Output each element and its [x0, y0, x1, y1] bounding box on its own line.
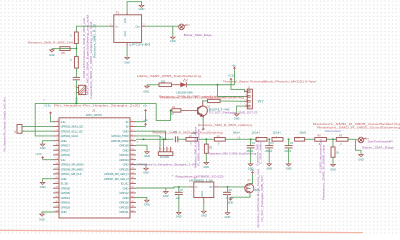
wire L1 to junction R7 — [198, 138, 215, 140]
svg-text:GPIO13: GPIO13 — [61, 196, 71, 200]
ground GND under C3 — [248, 163, 253, 166]
connector J3 RPI GPIO box — [59, 118, 130, 218]
wire pin34 gnd — [136, 197, 147, 199]
svg-text:110nH: 110nH — [252, 130, 260, 134]
wire LED to +5v — [186, 84, 234, 86]
inductor L2 — [214, 138, 225, 142]
svg-text:Resistors_SMD_R_0805_nice: Resistors_SMD_R_0805_nice — [322, 144, 326, 200]
connector J1 2-pin header — [17, 125, 22, 134]
svg-text:GPIO14_TXD0: GPIO14_TXD0 — [111, 134, 129, 138]
svg-text:RPI_GPIO: RPI_GPIO — [86, 113, 103, 117]
svg-text:Out: Out — [135, 24, 139, 28]
wire filter top pin to ground — [127, 2, 141, 12]
svg-text:Pin_Headers-Pin_Header_Straigh: Pin_Headers-Pin_Header_Straight_1x02_(4x… — [3, 97, 7, 151]
svg-text:+5v: +5v — [143, 104, 148, 108]
led D1 — [172, 84, 181, 86]
svg-text:GND: GND — [143, 90, 149, 94]
capacitor C3 shunt — [250, 139, 252, 145]
svg-text:GND: GND — [76, 97, 79, 103]
ground GND under C7 — [177, 212, 182, 215]
svg-text:TO_SOT_Packages_SMD_SOT-23: TO_SOT_Packages_SMD_SOT-23 — [209, 111, 259, 115]
svg-text:C_0805_solder: C_0805_solder — [259, 142, 263, 164]
ground GND Q2 arrow — [229, 197, 231, 200]
svg-text:GPIO12: GPIO12 — [119, 191, 129, 195]
svg-text:GND: GND — [358, 158, 364, 162]
wire Z-bend to base resistor — [156, 103, 172, 120]
resistor R5 base resistor — [172, 109, 181, 112]
svg-text:GND: GND — [144, 203, 150, 207]
svg-text:GPIO17: GPIO17 — [61, 144, 71, 148]
svg-text:GND: GND — [139, 7, 145, 11]
node junction filter net — [75, 48, 77, 50]
ground GND below SMA — [172, 26, 174, 36]
svg-text:GND: GND — [330, 167, 336, 171]
svg-text:+3.3v: +3.3v — [44, 104, 52, 108]
inductor L1 — [186, 138, 198, 142]
svg-text:GND: GND — [234, 116, 240, 120]
wire collector net to PTT pin3 — [220, 100, 244, 102]
ground GND regulator — [203, 202, 205, 210]
resistor R10 shunt to gnd — [332, 139, 334, 147]
svg-text:R_0805_solder_mode: R_0805_solder_mode — [197, 128, 201, 166]
node junction cap C3 — [250, 138, 252, 140]
node junction on GPIO4 net — [75, 102, 77, 104]
ground GND stub on regulator net — [165, 188, 167, 190]
inductor L3 — [256, 138, 267, 142]
svg-text:220pF: 220pF — [284, 150, 292, 153]
svg-text:GND: GND — [144, 154, 150, 158]
svg-text:.068uF: .068uF — [265, 150, 273, 153]
svg-text:Resistors_SMD_R_08: Resistors_SMD_R_08 — [92, 23, 96, 58]
svg-text:GPIO07_SPI_CE1_N: GPIO07_SPI_CE1_N — [104, 177, 128, 181]
node junction shunt R7 — [205, 138, 207, 140]
svg-text:GPIO09_SPI_MISO: GPIO09_SPI_MISO — [61, 167, 85, 171]
svg-text:GPIO24: GPIO24 — [119, 158, 129, 162]
ground GND under C4 — [267, 163, 272, 166]
ground GND left of R2 — [52, 48, 60, 50]
node junction cap C4 — [268, 138, 270, 140]
node junction attenuator — [327, 138, 337, 140]
filter U-F1 box — [114, 15, 142, 43]
wire attenuator to SMA2 — [348, 138, 358, 141]
svg-text:+3.3v: +3.3v — [228, 73, 235, 77]
regulator U1 box — [194, 182, 214, 198]
svg-text:GPIO26: GPIO26 — [61, 205, 71, 209]
svg-text:GND: GND — [123, 163, 129, 167]
wire pin32 to regulator — [136, 187, 189, 188]
resistor R3 vertical — [75, 57, 79, 69]
node junction LED net — [217, 84, 219, 86]
wire junction to R2 shunt — [60, 48, 76, 50]
svg-text:GPIO27: GPIO27 — [61, 148, 71, 152]
node junction C8 — [227, 186, 229, 188]
svg-text:GPIO18: GPIO18 — [119, 144, 129, 148]
ground GND pin25 — [43, 179, 53, 182]
svg-text:F1: F1 — [116, 10, 120, 14]
resistor R8 attenuator — [315, 138, 327, 142]
svg-text:.056uF: .056uF — [246, 150, 254, 153]
svg-text:GPIO08_SPI_CE0_N: GPIO08_SPI_CE0_N — [104, 172, 128, 176]
svg-text:GPIO10_SPI_MOSI: GPIO10_SPI_MOSI — [61, 163, 84, 167]
wire R1 to junction — [75, 44, 77, 57]
ground GND pin9 — [43, 141, 53, 143]
svg-text:GND: GND — [170, 39, 176, 43]
svg-text:GPIO23: GPIO23 — [119, 153, 129, 157]
svg-text:1Xu100: 1Xu100 — [160, 155, 170, 159]
svg-text:Capacitors_SMD_C_0805_solderin: Capacitors_SMD_C_0805_soldering_ext_mod — [89, 21, 93, 99]
svg-text:GPIO05: GPIO05 — [61, 186, 71, 190]
ground GND pin20 right — [144, 167, 149, 170]
svg-text:256: 256 — [61, 52, 66, 55]
wire C1 down to jumper JP1 — [75, 80, 77, 104]
sheet border line — [0, 230, 363, 232]
wire pin8 chain — [136, 138, 174, 140]
svg-text:GND: GND — [201, 213, 207, 217]
svg-text:GPIO04_GCLK: GPIO04_GCLK — [61, 134, 79, 138]
svg-text:GPIO02_SDA1_I2C: GPIO02_SDA1_I2C — [61, 125, 84, 129]
svg-text:VO: VO — [209, 186, 213, 189]
svg-text:GND: GND — [123, 186, 129, 190]
ground arrow emitter — [202, 118, 204, 127]
wire GPIO4 net to filter input — [76, 26, 110, 31]
ground GND under R7 — [204, 162, 209, 165]
resistor R6 collector — [202, 99, 204, 102]
svg-text:50nH: 50nH — [300, 130, 307, 134]
svg-text:GPIO16: GPIO16 — [119, 201, 129, 205]
wire pin20 gnd — [136, 164, 146, 167]
wire pin12 bend to header — [136, 145, 147, 150]
svg-text:GND: GND — [40, 146, 46, 150]
resistor R4 for LED — [159, 83, 172, 87]
svg-text:GPIO20: GPIO20 — [119, 205, 129, 209]
connector P1 SMA edge antenna — [179, 24, 187, 30]
svg-text:250: 250 — [161, 81, 166, 84]
inductor L4 — [272, 138, 283, 142]
resistor R1 vertical — [75, 32, 79, 44]
capacitor C2 series — [175, 136, 177, 142]
wire junction to PTT pin2 — [218, 85, 245, 97]
svg-text:GPIO25: GPIO25 — [119, 167, 129, 171]
svg-text:GPIO03_SCL1_I2C: GPIO03_SCL1_I2C — [61, 129, 83, 133]
svg-text:GPIO22: GPIO22 — [61, 153, 71, 157]
svg-text:VI: VI — [195, 186, 198, 189]
ground GND near TSU header — [145, 151, 150, 154]
wire +5v to Q2 drain — [250, 175, 253, 184]
resistor R9 attenuator — [336, 138, 348, 142]
capacitor C7 input — [178, 187, 180, 192]
svg-text:+5v: +5v — [231, 64, 236, 68]
svg-text:GND: GND — [124, 31, 127, 37]
svg-text:MOT_HG.R_SMA_KateSoldering_ext: MOT_HG.R_SMA_KateSoldering_ext_sold — [86, 14, 90, 95]
ground GND under C5 — [286, 163, 291, 166]
svg-text:P?: P? — [187, 24, 191, 28]
svg-text:microwave_RFCircuits-Morse_Key: microwave_RFCircuits-Morse_Keying_mod — [256, 168, 260, 228]
svg-text:GND: GND — [228, 201, 234, 204]
svg-text:68nH: 68nH — [233, 130, 240, 134]
svg-text:+3.3v: +3.3v — [35, 152, 42, 156]
connector J3 left pins — [53, 120, 84, 214]
svg-text:GND: GND — [225, 215, 231, 219]
svg-text:GND: GND — [176, 215, 182, 219]
resistor R2 shunt horizontal — [60, 47, 70, 51]
connector P2 SMA edge output — [358, 137, 366, 143]
svg-text:GPIO19: GPIO19 — [61, 201, 71, 205]
svg-text:GPIO06: GPIO06 — [61, 191, 71, 195]
svg-text:GND: GND — [61, 177, 67, 181]
svg-text:GND: GND — [61, 210, 67, 214]
svg-text:GND: GND — [124, 61, 130, 65]
svg-text:+5v: +5v — [143, 118, 148, 122]
capacitor C1 — [73, 77, 80, 79]
connector J4 TSU100 header — [158, 152, 173, 156]
wire L5 to attenuator — [305, 138, 315, 140]
svg-text:110nH: 110nH — [273, 130, 281, 134]
svg-text:Bacer_SMA_Edge: Bacer_SMA_Edge — [362, 146, 394, 150]
svg-text:Resistors_SMD_R_0805_B%_KoodSo: Resistors_SMD_R_0805_B%_KoodSoldering — [153, 131, 223, 135]
svg-text:Terminal_Basic-TerminalBlock_P: Terminal_Basic-TerminalBlock_Phoenix_MKD… — [223, 79, 317, 83]
svg-text:GND: GND — [143, 171, 149, 175]
power +3.3v to pin1 — [49, 112, 51, 115]
svg-text:ID_SC: ID_SC — [121, 182, 129, 186]
capacitor C5 shunt — [288, 139, 290, 145]
svg-text:GND: GND — [124, 18, 127, 24]
svg-text:Bacar_SMA_Edge: Bacar_SMA_Edge — [184, 33, 212, 37]
ground GND left of R4 — [145, 85, 150, 88]
transistor Q1 NPN BC817 — [198, 100, 208, 118]
ground GND pin39 — [42, 212, 53, 213]
svg-text:GND: GND — [266, 166, 272, 170]
svg-text:Resistors_SMD_R_0805_1%91: Resistors_SMD_R_0805_1%91 — [28, 40, 75, 44]
svg-text:C5: C5 — [173, 130, 177, 134]
wire pin6 to chain start — [136, 131, 166, 139]
inductor L5 — [295, 138, 305, 142]
svg-text:PTT: PTT — [258, 100, 264, 104]
svg-text:GND: GND — [203, 165, 209, 169]
svg-text:3.3v: 3.3v — [61, 158, 66, 162]
svg-text:GPIO21: GPIO21 — [119, 210, 129, 214]
svg-text:Regulators-LM78M05_SO-223: Regulators-LM78M05_SO-223 — [176, 175, 225, 179]
capacitor C4 shunt — [268, 139, 270, 145]
ground GND top of filter — [139, 4, 144, 7]
ground GND under C8 — [225, 212, 230, 215]
wire chain to TSU100 pins — [159, 136, 161, 147]
svg-text:GND: GND — [201, 191, 204, 197]
wire pin10 to TSU pins — [136, 135, 160, 137]
svg-text:1uF: 1uF — [176, 197, 181, 200]
svg-text:Resistors_SMD_R_0805_soldering: Resistors_SMD_R_0805_soldering — [198, 123, 253, 127]
svg-text:Attenuator: Attenuator — [325, 129, 341, 133]
svg-text:GPIO11_SPI_CLK: GPIO11_SPI_CLK — [61, 172, 82, 176]
svg-text:2wTinGanHF: 2wTinGanHF — [367, 140, 393, 144]
ground GND attenuator — [331, 164, 336, 167]
wire filter output to antenna SMA — [146, 25, 179, 27]
wire J1 to SDA pin3 — [22, 125, 53, 127]
svg-text:TO_SOT_Packages_SMD_SOT: TO_SOT_Packages_SMD_SOT — [260, 175, 264, 222]
svg-text:LFCN-80: LFCN-80 — [129, 43, 151, 47]
ground GND PTT pin4 — [237, 106, 245, 113]
capacitor C8 output — [227, 187, 229, 192]
svg-text:GND: GND — [123, 148, 129, 152]
svg-text:GND: GND — [286, 166, 292, 170]
svg-text:GND: GND — [61, 139, 67, 143]
svg-text:GND: GND — [49, 53, 55, 57]
node junction C7 — [178, 186, 180, 188]
svg-text:GND: GND — [123, 196, 129, 200]
svg-text:Pin_Headers-Pin_Header_Straigh: Pin_Headers-Pin_Header_Straight_2x20 — [54, 104, 140, 108]
svg-text:Resistors_SMD_R_0805_KoodSolde: Resistors_SMD_R_0805_KoodSoldering — [160, 95, 245, 99]
wire J1 to SCL pin5 — [22, 130, 53, 132]
svg-text:ID_SD: ID_SD — [61, 182, 69, 186]
wire Q2 source to gnd — [231, 193, 251, 197]
ground GND pin34 — [145, 199, 150, 202]
svg-text:GND: GND — [40, 185, 46, 189]
connector J2 PTT terminal block — [247, 89, 252, 109]
svg-text:GND: GND — [39, 217, 45, 221]
svg-text:Pin_Headers*n_Headers_Straight: Pin_Headers*n_Headers_Straight_1-04 — [131, 162, 197, 166]
svg-text:GND: GND — [163, 194, 169, 198]
svg-text:LEDs_SMD_0805_KateSoldering: LEDs_SMD_0805_KateSoldering — [137, 74, 202, 78]
wire regulator output — [219, 186, 245, 188]
ground GND below SMA2 — [356, 140, 362, 153]
svg-text:GND: GND — [123, 129, 129, 133]
wire GPIO4 long net — [35, 103, 156, 136]
connector J3 right pins — [104, 120, 136, 214]
node junction cap C5 — [288, 138, 290, 140]
wire R3 to capacitor C1 — [75, 68, 77, 77]
svg-text:J3: J3 — [92, 108, 95, 112]
resistor R7 shunt vertical — [205, 139, 207, 144]
jumper JP1 hatched box — [79, 85, 86, 94]
wire L2 to junction C3 — [225, 138, 256, 140]
svg-text:COM.LGT10 Resistors_SMD_R_0805: COM.LGT10 Resistors_SMD_R_0805_sold — [82, 17, 86, 78]
ground GND bottom of filter — [126, 46, 128, 56]
svg-text:GPIO15_RXD0: GPIO15_RXD0 — [111, 139, 129, 143]
svg-text:3.3v: 3.3v — [61, 120, 66, 124]
